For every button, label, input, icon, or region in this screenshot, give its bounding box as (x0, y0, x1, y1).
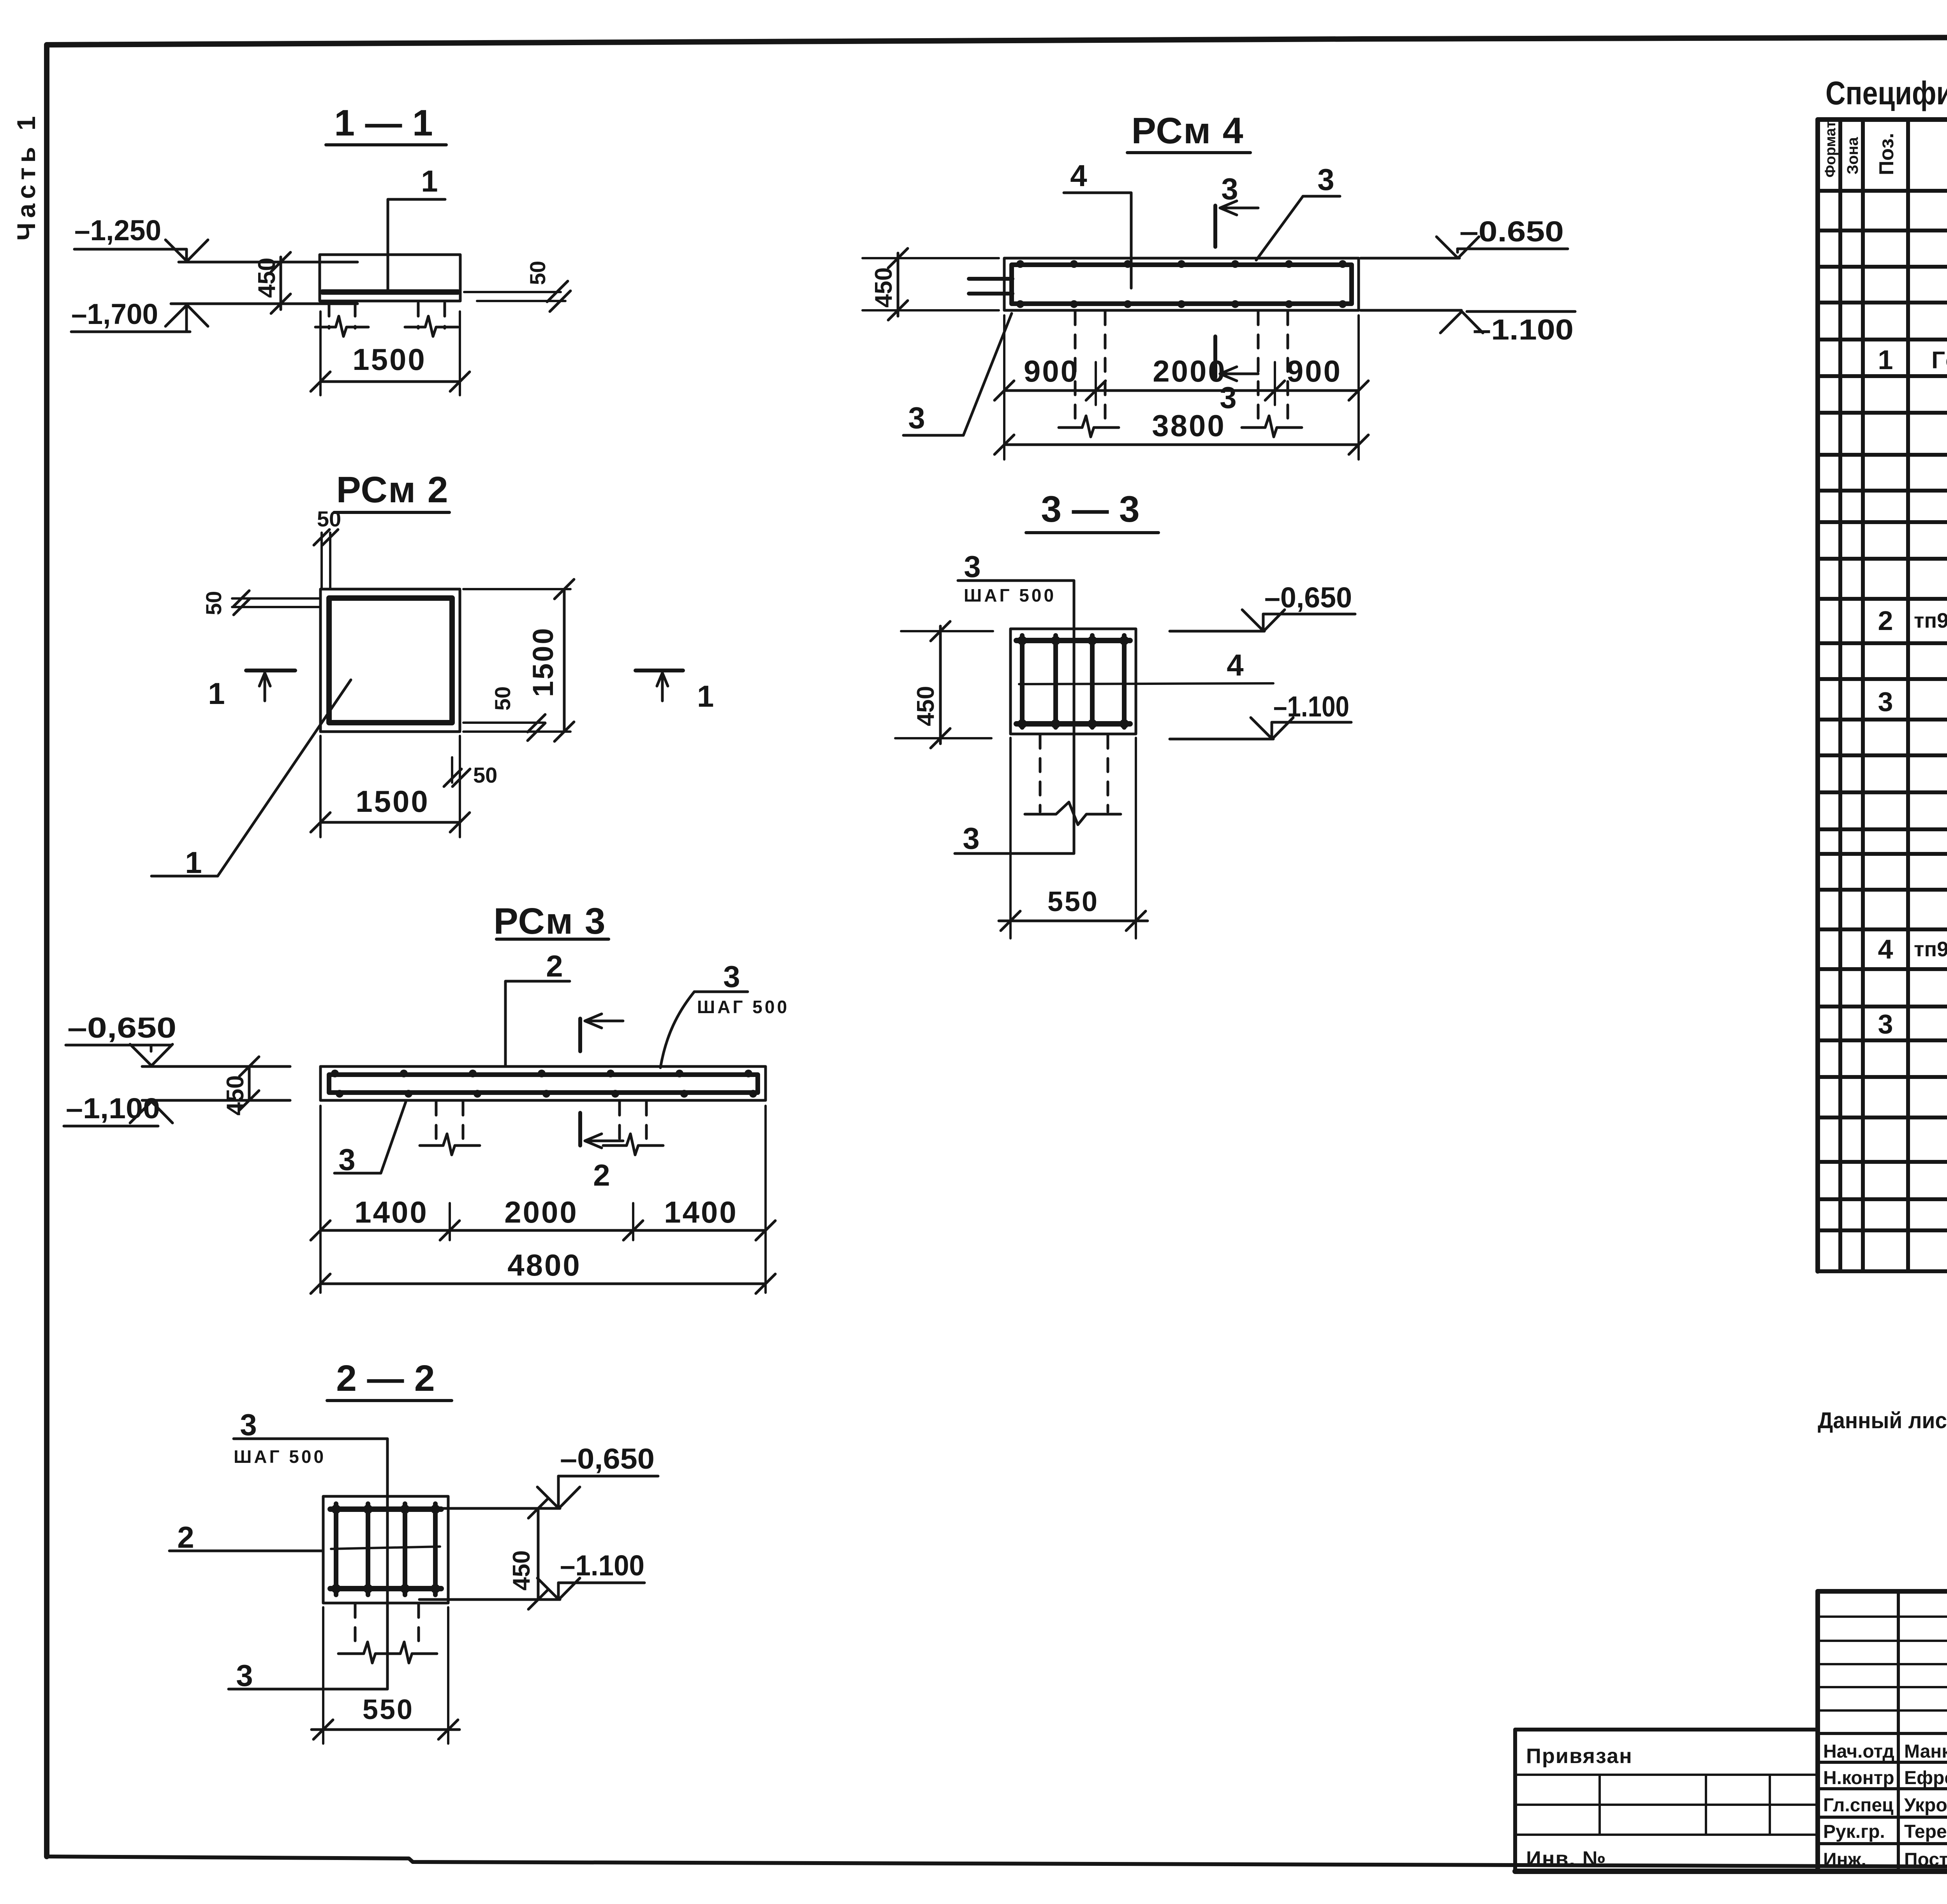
svg-text:тп902-1-104.85-КЖИ-1.103 ал.4: тп902-1-104.85-КЖИ-1.103 ал.4 (1914, 938, 1947, 961)
svg-text:1 — 1: 1 — 1 (334, 102, 433, 144)
svg-text:450: 450 (870, 267, 897, 308)
svg-text:Поз.: Поз. (1875, 133, 1898, 175)
svg-text:50: 50 (490, 686, 515, 711)
svg-text:900: 900 (1287, 354, 1342, 388)
svg-text:2: 2 (593, 1158, 610, 1192)
svg-text:–0.650: –0.650 (1459, 215, 1564, 248)
svg-text:1400: 1400 (664, 1195, 738, 1229)
svg-text:1: 1 (185, 845, 202, 880)
svg-text:2 — 2: 2 — 2 (336, 1358, 435, 1399)
svg-text:450: 450 (222, 1075, 249, 1116)
svg-text:3: 3 (964, 549, 981, 584)
svg-text:4: 4 (1070, 158, 1087, 193)
svg-text:–1.100: –1.100 (1273, 690, 1349, 723)
svg-text:3: 3 (1878, 686, 1893, 717)
svg-text:1400: 1400 (354, 1195, 428, 1229)
svg-text:4: 4 (1227, 648, 1243, 682)
svg-text:Манкаускас: Манкаускас (1904, 1741, 1947, 1762)
svg-text:2000: 2000 (504, 1195, 578, 1229)
svg-text:3: 3 (240, 1408, 257, 1442)
svg-text:4: 4 (1878, 934, 1893, 964)
svg-text:РСм 4: РСм 4 (1131, 110, 1244, 151)
svg-text:Привязан: Привязан (1526, 1744, 1633, 1768)
svg-text:Гост 23279 - 85: Гост 23279 - 85 (1931, 347, 1947, 374)
svg-text:50: 50 (201, 591, 226, 615)
svg-text:Постников: Постников (1904, 1849, 1947, 1870)
svg-text:Нач.отд: Нач.отд (1823, 1741, 1894, 1762)
svg-text:550: 550 (1047, 886, 1099, 917)
svg-text:Н.контр: Н.контр (1823, 1768, 1894, 1788)
svg-text:2000: 2000 (1153, 354, 1227, 388)
svg-text:ШАГ 500: ШАГ 500 (964, 585, 1056, 605)
svg-text:Спецификация ростверков РСм: Спецификация ростверков РСм 2 ÷ РСм 4 (1826, 75, 1947, 111)
svg-text:2: 2 (177, 1520, 194, 1554)
svg-text:3: 3 (723, 959, 740, 994)
svg-text:1500: 1500 (527, 626, 559, 697)
svg-text:3: 3 (1317, 162, 1334, 197)
svg-text:3 — 3: 3 — 3 (1041, 489, 1139, 530)
svg-text:–1.100: –1.100 (1473, 313, 1574, 346)
svg-text:Рук.гр.: Рук.гр. (1823, 1821, 1885, 1842)
svg-text:тп902-1-104.85-КЖИ-1.102 ал.4: тп902-1-104.85-КЖИ-1.102 ал.4 (1914, 609, 1947, 632)
svg-text:–1,250: –1,250 (74, 214, 161, 246)
svg-text:Укропова: Укропова (1904, 1795, 1947, 1816)
svg-text:–0,650: –0,650 (1264, 581, 1352, 614)
svg-text:Терентьев: Терентьев (1904, 1821, 1947, 1842)
svg-text:Инж.: Инж. (1823, 1849, 1866, 1870)
svg-text:2: 2 (546, 949, 563, 983)
svg-text:–1,700: –1,700 (71, 298, 158, 330)
svg-text:3: 3 (963, 821, 979, 855)
svg-text:3: 3 (236, 1658, 253, 1693)
svg-text:900: 900 (1024, 354, 1079, 388)
svg-text:450: 450 (912, 686, 939, 726)
svg-text:550: 550 (363, 1694, 414, 1725)
svg-text:Зона: Зона (1844, 137, 1861, 174)
svg-text:3: 3 (1878, 1009, 1893, 1039)
svg-text:Ефремова: Ефремова (1904, 1768, 1947, 1788)
svg-text:2: 2 (1878, 605, 1893, 636)
svg-text:50: 50 (473, 763, 497, 787)
svg-text:1: 1 (1878, 345, 1893, 375)
svg-text:1: 1 (208, 676, 225, 711)
svg-text:450: 450 (508, 1550, 535, 1591)
svg-text:Инв. №: Инв. № (1526, 1847, 1607, 1871)
svg-text:Формат: Формат (1822, 121, 1839, 178)
svg-text:3: 3 (908, 401, 925, 435)
svg-text:–1.100: –1.100 (560, 1549, 644, 1582)
svg-text:Часть 1: Часть 1 (12, 111, 40, 241)
svg-text:Гл.спец: Гл.спец (1823, 1795, 1894, 1816)
svg-text:РСм 2: РСм 2 (336, 469, 449, 510)
svg-text:ШАГ 500: ШАГ 500 (234, 1446, 326, 1467)
svg-text:3: 3 (338, 1142, 355, 1177)
svg-text:РСм 3: РСм 3 (493, 901, 606, 942)
svg-text:1500: 1500 (356, 784, 430, 818)
svg-text:3: 3 (1221, 172, 1238, 206)
svg-text:1500: 1500 (352, 342, 426, 377)
svg-text:Данный лист см. совместно с ли: Данный лист см. совместно с листом КЖ-4 (1818, 1408, 1947, 1433)
svg-text:4800: 4800 (507, 1248, 581, 1282)
svg-text:450: 450 (253, 258, 280, 298)
svg-text:50: 50 (525, 261, 550, 285)
svg-text:ШАГ 500: ШАГ 500 (697, 997, 789, 1017)
svg-text:3800: 3800 (1152, 408, 1226, 443)
svg-text:–0,650: –0,650 (67, 1012, 176, 1044)
svg-text:–0,650: –0,650 (560, 1443, 655, 1475)
svg-text:1: 1 (421, 164, 438, 198)
svg-text:1: 1 (697, 679, 714, 713)
svg-text:50: 50 (317, 507, 341, 531)
